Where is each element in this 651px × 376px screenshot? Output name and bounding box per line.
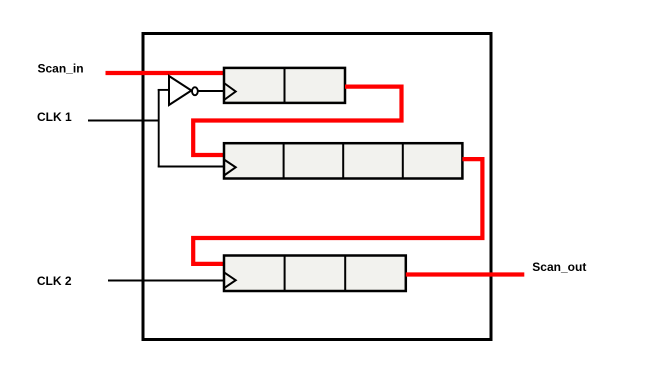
register R1 (2-bit shift register) [224, 68, 345, 103]
wire CLK1 horizontal [88, 120, 159, 122]
wire R1 output to R2 input (red) [193, 87, 401, 155]
wire CLK1 to register R2 clock [158, 166, 225, 168]
register R3 (3-bit shift register) [224, 256, 406, 292]
inverter U1 [169, 76, 198, 105]
wire R2 output to R3 input (red) [193, 159, 482, 264]
wire CLK1 to inverter input [158, 89, 169, 91]
wire CLK2 to register R3 clock [108, 280, 225, 282]
register R2 (4-bit shift register) [224, 143, 462, 178]
svg-text:Scan_out: Scan_out [532, 260, 586, 274]
wire Scan_out (red) [406, 272, 525, 276]
svg-text:Scan_in: Scan_in [38, 62, 84, 76]
chip boundary [143, 34, 491, 340]
svg-text:CLK 2: CLK 2 [37, 274, 72, 288]
wire inverter output to register R1 clock [198, 90, 225, 92]
wire Scan_in (red) [106, 71, 225, 75]
wire CLK1 branch vertical [158, 89, 160, 167]
svg-text:CLK 1: CLK 1 [37, 110, 72, 124]
